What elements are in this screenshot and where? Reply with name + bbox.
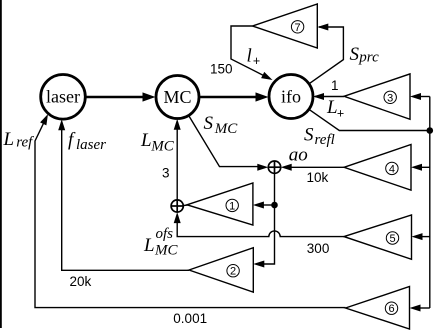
wire 20k from amplifier 2 to laser (f_laser) (58, 119, 189, 270)
svg-text:ref: ref (16, 135, 34, 151)
amplifier 6 (346, 287, 410, 330)
svg-text:1: 1 (331, 78, 339, 93)
wire l+ from amplifier 7 to ifo (231, 26, 273, 80)
svg-text:ifo: ifo (281, 87, 301, 107)
svg-text:7: 7 (295, 22, 301, 34)
amplifier 3 (344, 74, 410, 119)
junction dot below summing node ao (271, 202, 278, 209)
wire S_prc from ifo to amplifier 7 (309, 24, 343, 84)
wire bus to amplifier 6 (410, 305, 430, 312)
wire amplifier 1 to summing node MC offset (183, 204, 187, 207)
svg-text:L: L (3, 129, 15, 150)
label L_ref (3, 129, 35, 151)
svg-text:L: L (140, 130, 152, 151)
svg-text:5: 5 (389, 233, 395, 245)
MC block (156, 76, 199, 119)
wire 0.001 from amplifier 6 to laser (L_ref) (35, 114, 346, 308)
summing node MC offset (171, 200, 183, 212)
svg-text:10k: 10k (307, 170, 329, 185)
wire 300 from amplifier 5 to summing node MC offset (with hop) (174, 212, 344, 237)
svg-text:3: 3 (387, 92, 393, 104)
label S_prc (350, 44, 380, 66)
svg-text:2: 2 (230, 266, 236, 278)
svg-text:+: + (253, 54, 260, 68)
amplifier 5 (344, 215, 412, 259)
laser block (41, 75, 86, 120)
svg-text:ao: ao (289, 144, 308, 165)
svg-text:+: + (337, 107, 344, 121)
wire bus to amplifier 3 (410, 93, 430, 100)
wire S_MC from MC to summing node ao (189, 115, 269, 170)
svg-text:1: 1 (229, 200, 235, 212)
amplifier 2 (189, 248, 253, 292)
feedback bus vertical wire (429, 97, 431, 309)
wire L_MC from summing node up into MC (174, 119, 181, 200)
svg-text:6: 6 (388, 303, 394, 315)
svg-text:refl: refl (315, 132, 335, 148)
ifo block (269, 75, 313, 119)
svg-text:S: S (350, 44, 360, 65)
svg-text:laser: laser (46, 87, 80, 107)
svg-text:MC: MC (163, 87, 191, 107)
wire S_refl from ifo to feedback bus (309, 109, 430, 130)
amplifier 4 (344, 145, 411, 191)
svg-text:S: S (204, 113, 214, 134)
svg-text:MC: MC (154, 243, 178, 259)
svg-text:ofs: ofs (156, 226, 174, 242)
svg-text:MC: MC (214, 121, 238, 137)
svg-text:150: 150 (210, 62, 233, 77)
label S_refl (304, 125, 335, 148)
svg-text:L: L (326, 97, 338, 118)
label L+ (326, 97, 344, 120)
svg-text:prc: prc (358, 50, 379, 66)
wire junction to amplifier 1 (253, 202, 275, 209)
label l+ (247, 45, 261, 68)
label L_MC (140, 130, 175, 154)
svg-text:4: 4 (389, 163, 395, 175)
amplifier 1 (187, 183, 253, 225)
wire summing node ao down to amplifier 2 corner (253, 173, 274, 267)
junction dot on feedback bus (427, 127, 434, 134)
wire bus to amplifier 5 (412, 233, 430, 240)
label L_MC_ofs (143, 226, 178, 259)
amplifier 7 (253, 4, 318, 48)
label f_laser (68, 130, 106, 153)
beam arrow laser to MC (85, 92, 156, 101)
wire from amplifier 3 to ifo (313, 93, 344, 100)
svg-text:0.001: 0.001 (173, 311, 207, 326)
svg-text:MC: MC (150, 138, 174, 154)
wire bus to amplifier 4 (411, 164, 430, 171)
beam arrow MC to ifo (199, 92, 269, 101)
svg-text:300: 300 (307, 241, 330, 256)
svg-text:laser: laser (76, 137, 106, 153)
summing node ao (268, 161, 280, 173)
svg-text:S: S (304, 125, 314, 146)
svg-text:3: 3 (162, 166, 170, 181)
svg-text:l: l (247, 45, 252, 66)
svg-text:20k: 20k (70, 274, 92, 289)
svg-text:L: L (143, 235, 155, 256)
wire amplifier 4 to summing node ao (281, 164, 344, 171)
label S_MC (204, 113, 239, 137)
